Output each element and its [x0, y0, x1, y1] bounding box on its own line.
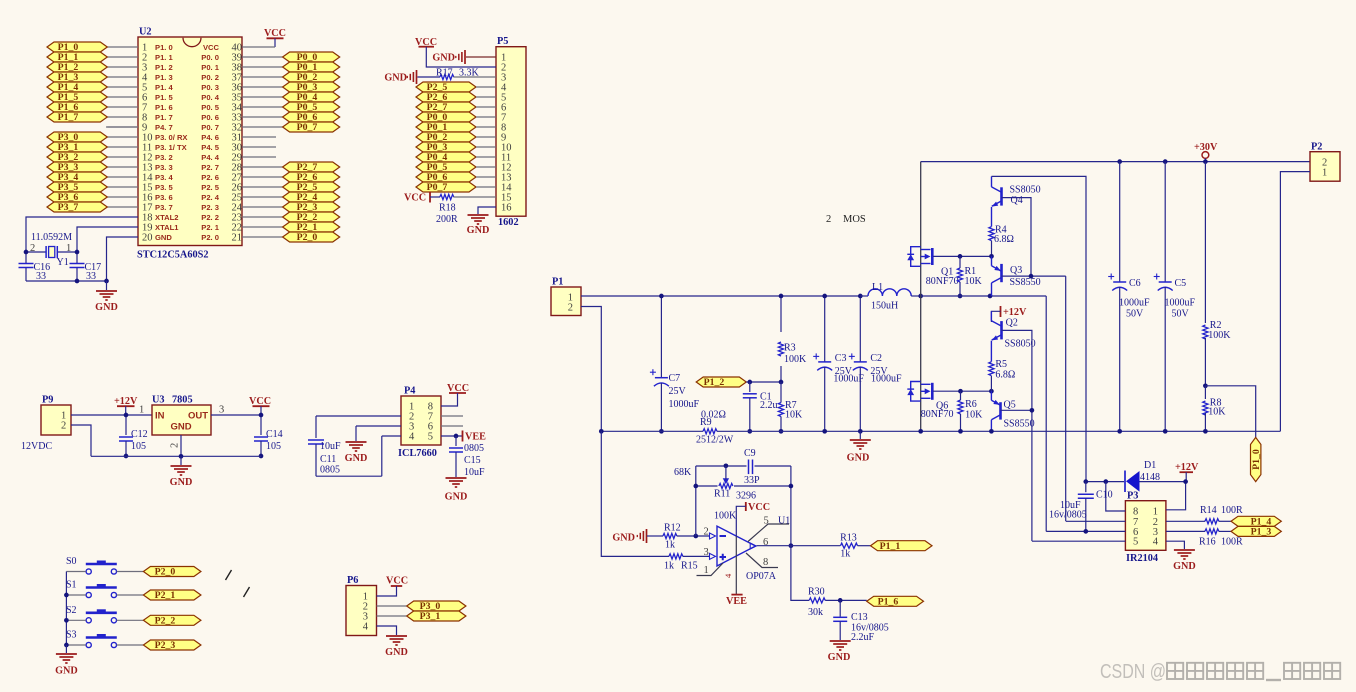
svg-text:P2_0: P2_0: [155, 567, 176, 578]
svg-text:GND: GND: [170, 422, 191, 433]
wire XTAL1 to crystal: [77, 227, 138, 252]
svg-text:2: 2: [61, 421, 66, 432]
svg-text:80NF70: 80NF70: [926, 276, 959, 287]
wire crystal bottom rail: [26, 280, 107, 282]
svg-text:4: 4: [1153, 537, 1159, 548]
svg-text:P2. 7: P2. 7: [201, 163, 219, 172]
svg-text:Y1: Y1: [57, 257, 69, 268]
svg-text:R16: R16: [1199, 537, 1216, 548]
wire S0 left: [66, 571, 85, 573]
svg-text:S3: S3: [66, 630, 77, 641]
ic P3 IR2104 box: [1125, 501, 1166, 551]
opamp negative supply stem: [735, 537, 737, 595]
capacitor C14 105: [260, 415, 262, 435]
svg-text:C15: C15: [464, 455, 481, 466]
svg-text:P1. 1: P1. 1: [155, 53, 174, 62]
svg-text:21: 21: [232, 233, 243, 244]
svg-text:P3_1: P3_1: [420, 611, 441, 622]
capacitor C7 1000uF 25V electrolytic: [660, 296, 662, 378]
svg-text:P2_3: P2_3: [155, 640, 176, 651]
svg-text:VCC: VCC: [386, 576, 408, 587]
wire U3 ground rail: [91, 455, 261, 457]
svg-text:30k: 30k: [808, 607, 823, 618]
svg-text:R5: R5: [995, 359, 1007, 370]
svg-text:OP07A: OP07A: [746, 571, 777, 582]
junction dot R30 C13: [838, 598, 843, 603]
svg-text:P2. 0: P2. 0: [201, 233, 219, 242]
connector P1 box: [551, 287, 581, 316]
svg-text:VEE: VEE: [465, 432, 486, 443]
svg-text:33: 33: [86, 271, 96, 282]
junction dots VB node: [1083, 479, 1088, 484]
svg-text:1000uF: 1000uF: [1165, 298, 1196, 309]
port P2_3: [143, 640, 201, 650]
resistor R30 30k: [809, 598, 825, 603]
mosfet Q6 80NF70: [907, 382, 932, 402]
svg-text:C13: C13: [851, 612, 868, 623]
wire HO bus down to IR2104 pin7: [1065, 276, 1067, 521]
svg-text:P1_7: P1_7: [58, 112, 79, 123]
junction dots at C14: [259, 413, 264, 418]
pin 5 stub: [748, 524, 789, 542]
capacitor C2 1000uF 25V electrolytic: [859, 296, 861, 362]
svg-text:P1. 3: P1. 3: [155, 73, 173, 82]
svg-text:100R: 100R: [1221, 537, 1243, 548]
svg-text:P2. 5: P2. 5: [201, 183, 220, 192]
svg-text:CSDN @: CSDN @: [1100, 661, 1166, 683]
svg-text:5: 5: [428, 432, 433, 443]
svg-text:SS8050: SS8050: [1010, 185, 1041, 196]
transistor Q3 SS8550: [992, 256, 1002, 296]
wire S3 left: [66, 644, 85, 646]
svg-text:P0. 3: P0. 3: [201, 83, 219, 92]
svg-text:2512/2W: 2512/2W: [696, 435, 734, 446]
svg-text:C11: C11: [320, 454, 336, 465]
wire Q1 gate line: [933, 255, 992, 257]
svg-text:1000uF: 1000uF: [871, 374, 902, 385]
resistor R6 10K: [960, 391, 962, 400]
ports P3_0..P3_7: [47, 132, 107, 213]
svg-text:3.3K: 3.3K: [459, 68, 480, 79]
svg-text:1k: 1k: [664, 561, 674, 572]
svg-text:R6: R6: [965, 399, 977, 410]
svg-text:P4. 4: P4. 4: [201, 153, 220, 162]
capacitor C5 1000uF 50V electrolytic: [1164, 162, 1166, 282]
svg-text:1602: 1602: [498, 217, 519, 228]
svg-text:Q5: Q5: [1004, 399, 1016, 410]
svg-text:VCC: VCC: [203, 43, 220, 52]
opamp U1 OP07A: [710, 526, 757, 566]
svg-text:GND: GND: [1173, 561, 1196, 572]
junction dots gate Q6: [958, 389, 963, 394]
svg-text:4: 4: [409, 432, 415, 443]
svg-text:GND: GND: [847, 453, 870, 464]
ports P2_7..P2_0: [283, 162, 340, 243]
svg-text:C14: C14: [266, 429, 283, 440]
mosfet Q1 80NF70: [907, 247, 932, 267]
capacitor C11 10uF 0805 with loop wires: [316, 415, 401, 417]
svg-text:50V: 50V: [1126, 309, 1144, 320]
svg-text:P9: P9: [42, 395, 53, 406]
regulator U3 7805 box: [152, 405, 211, 435]
port P2_1: [143, 590, 201, 600]
svg-text:P0. 7: P0. 7: [201, 123, 219, 132]
svg-text:P3. 7: P3. 7: [155, 203, 173, 212]
resistor R15 1k: [669, 554, 683, 559]
svg-text:1: 1: [66, 243, 71, 254]
svg-text:XTAL1: XTAL1: [155, 223, 179, 232]
wire Q3 base to HO bus: [1002, 275, 1066, 277]
wire IR2104 pin5 LO: [1032, 540, 1126, 542]
svg-text:100R: 100R: [1221, 505, 1243, 516]
svg-text:GND: GND: [55, 666, 78, 677]
ports at P5: P2_5 P2_6 P2_7 P0_0..P0_7: [416, 82, 496, 193]
svg-text:P0. 6: P0. 6: [201, 113, 219, 122]
wire switches common bus: [65, 572, 67, 646]
svg-text:R18: R18: [439, 203, 456, 214]
svg-text:C2: C2: [870, 353, 882, 364]
wire Q6 gate line: [933, 390, 991, 392]
wire +30V to Q1 drain through mosfet: [920, 162, 922, 296]
junction dot L1 right / switch node: [918, 294, 923, 299]
svg-text:C9: C9: [744, 448, 756, 459]
junction dot rail P1 pin2: [599, 429, 604, 434]
wire P5 pin2 to VCC: [426, 47, 496, 67]
svg-text:7805: 7805: [172, 395, 193, 406]
mcu U2 box: [138, 37, 242, 246]
mcu U2 pin numbers and names: [142, 43, 243, 244]
svg-text:L1: L1: [872, 282, 883, 293]
potentiometer R11 3296 100K: [719, 483, 733, 488]
svg-text:10K: 10K: [965, 276, 983, 287]
svg-text:P3. 4: P3. 4: [155, 173, 174, 182]
ground GND at P6 pin4: [377, 626, 397, 635]
svg-text:10K: 10K: [785, 410, 803, 421]
svg-text:P3. 0/ RX: P3. 0/ RX: [155, 133, 188, 142]
wire Q4 collector top to VB bus: [992, 176, 1087, 481]
wire input rail to L1: [661, 295, 860, 297]
svg-text:P2. 3: P2. 3: [201, 203, 219, 212]
svg-text:P4. 5: P4. 5: [201, 143, 220, 152]
wire P1 pin1 to input rail: [581, 295, 661, 297]
resistor R13 1k: [791, 545, 841, 547]
resistor R14 100R: [1166, 520, 1205, 522]
svg-text:R9: R9: [700, 417, 712, 428]
junction dot R2 R8: [1203, 383, 1208, 388]
svg-text:C3: C3: [835, 353, 847, 364]
wire IR2104 pin7 HO: [1066, 520, 1126, 522]
connector P2 box: [1310, 152, 1340, 182]
wire P5 pin1: [466, 56, 496, 58]
wire current sense to opamp input: [601, 431, 669, 556]
wire P9 pin2 to ground rail: [71, 425, 91, 456]
svg-text:1k: 1k: [840, 549, 850, 560]
svg-text:5: 5: [764, 516, 769, 527]
svg-text:VCC: VCC: [404, 193, 426, 204]
wire output down to R30: [791, 546, 809, 601]
svg-text:P3: P3: [1127, 490, 1138, 501]
svg-text:33P: 33P: [744, 475, 760, 486]
wire U3 out to VCC: [211, 414, 261, 416]
stray slash marks: [226, 570, 232, 580]
wire P4 pin7 stub: [441, 415, 463, 417]
svg-text:GND: GND: [445, 492, 468, 503]
svg-text:150uH: 150uH: [871, 301, 898, 312]
svg-text:80NF70: 80NF70: [921, 409, 954, 420]
svg-text:C7: C7: [669, 373, 681, 384]
junction dots C7: [659, 294, 664, 299]
svg-text:U2: U2: [139, 27, 152, 38]
svg-text:10uF: 10uF: [320, 441, 341, 452]
svg-text:P0_7: P0_7: [297, 122, 318, 133]
svg-text:IN: IN: [155, 411, 165, 422]
wires U2 left pin stubs: [107, 47, 138, 207]
svg-text:P2_2: P2_2: [155, 616, 176, 627]
capacitor C3 1000uF 25V electrolytic: [824, 296, 826, 362]
wire VB to IR2104 pin8: [1106, 482, 1126, 511]
wire P1 pin2 down: [581, 307, 601, 432]
svg-text:1: 1: [139, 405, 144, 416]
junction dots feedback: [693, 484, 698, 489]
switch S1 pushbutton: [86, 586, 117, 589]
svg-text:P2_1: P2_1: [155, 590, 176, 601]
svg-text:ICL7660: ICL7660: [398, 448, 437, 459]
capacitor C1 2.2u: [749, 382, 751, 392]
resistor R7 10K: [780, 382, 782, 403]
ic P4 ICL7660 box: [401, 396, 441, 445]
svg-text:Q2: Q2: [1006, 317, 1018, 328]
svg-text:105: 105: [266, 441, 281, 452]
svg-text:100K: 100K: [1208, 330, 1231, 341]
svg-text:P1. 2: P1. 2: [155, 63, 173, 72]
feedback loop wires: [695, 466, 697, 536]
svg-text:P1. 4: P1. 4: [155, 83, 174, 92]
svg-text:OUT: OUT: [188, 411, 208, 422]
capacitor C13 2.2uF 16v/0805: [839, 600, 841, 616]
port P3_0: [407, 601, 466, 611]
svg-text:U1: U1: [778, 516, 790, 527]
junction dots crystal: [24, 250, 29, 255]
svg-text:2.2uF: 2.2uF: [851, 632, 875, 643]
svg-text:1: 1: [1322, 167, 1327, 178]
svg-text:D1: D1: [1144, 460, 1156, 471]
svg-text:10K: 10K: [965, 410, 983, 421]
svg-text:P1_1: P1_1: [880, 541, 901, 552]
junction dot Q6 source at ground rail: [918, 429, 923, 434]
wire divider tap to P1_0: [1205, 386, 1255, 438]
svg-text:P1_0: P1_0: [1251, 449, 1262, 470]
svg-text:SS8050: SS8050: [1005, 339, 1036, 350]
junction dots gate Q1: [958, 254, 963, 259]
svg-text:P2. 6: P2. 6: [201, 173, 219, 182]
svg-text:16: 16: [501, 203, 512, 214]
ground GND crystal: [106, 281, 108, 290]
svg-text:12VDC: 12VDC: [21, 441, 52, 452]
svg-text:C12: C12: [131, 429, 148, 440]
svg-text:GND: GND: [345, 453, 368, 464]
wire S2 left: [66, 619, 85, 621]
svg-text:P3. 5: P3. 5: [155, 183, 174, 192]
svg-text:R11: R11: [714, 489, 730, 500]
svg-text:P3. 1/ TX: P3. 1/ TX: [155, 143, 187, 152]
svg-text:C5: C5: [1175, 278, 1187, 289]
wire switch node rail: [921, 295, 1046, 297]
svg-text:2.2u: 2.2u: [760, 400, 778, 411]
ports P1_0..P1_7: [47, 42, 107, 123]
svg-text:R14: R14: [1200, 505, 1217, 516]
junction dots R3: [779, 294, 784, 299]
capacitor C6 1000uF 50V electrolytic: [1119, 162, 1121, 282]
svg-text:P1. 5: P1. 5: [155, 93, 174, 102]
svg-text:2: 2: [826, 214, 831, 225]
svg-text:S1: S1: [66, 580, 77, 591]
power VCC at opamp: [745, 502, 747, 511]
svg-text:GND: GND: [384, 73, 407, 84]
svg-text:GND: GND: [155, 233, 172, 242]
ground GND below C13: [830, 640, 851, 642]
svg-text:4148: 4148: [1140, 472, 1160, 483]
wire P1_2 to divider: [746, 381, 781, 383]
svg-text:8: 8: [763, 557, 768, 568]
svg-text:0805: 0805: [320, 465, 340, 476]
svg-text:2: 2: [30, 243, 35, 254]
svg-text:Q4: Q4: [1011, 195, 1023, 206]
svg-text:R15: R15: [681, 561, 698, 572]
svg-text:P3_7: P3_7: [58, 202, 79, 213]
svg-text:16v/0805: 16v/0805: [1049, 510, 1087, 521]
svg-text:R12: R12: [664, 523, 681, 534]
port P1_0 vertical: [1251, 437, 1261, 481]
svg-text:R17: R17: [436, 68, 453, 79]
svg-text:0805: 0805: [464, 443, 484, 454]
svg-text:P3. 2: P3. 2: [155, 153, 173, 162]
svg-text:VCC: VCC: [264, 28, 286, 39]
svg-text:P1: P1: [552, 277, 563, 288]
junction dot gate node high side: [989, 254, 994, 259]
resistor R3 100K: [780, 296, 782, 332]
svg-text:50V: 50V: [1172, 309, 1190, 320]
wire Q5 base: [1001, 409, 1032, 411]
switch S0 pushbutton: [86, 563, 117, 566]
wire S0 right to port: [117, 571, 144, 573]
svg-text:6.8Ω: 6.8Ω: [994, 234, 1014, 245]
svg-text:P1. 6: P1. 6: [155, 103, 173, 112]
switch S3 pushbutton: [86, 636, 117, 639]
svg-text:P1_3: P1_3: [1251, 527, 1272, 538]
svg-text:U3: U3: [152, 395, 165, 406]
svg-text:P0. 4: P0. 4: [201, 93, 220, 102]
svg-text:VEE: VEE: [726, 596, 747, 607]
svg-text:P2_0: P2_0: [297, 232, 318, 243]
wire S2 right to port: [117, 619, 144, 621]
port P3_1: [407, 611, 466, 621]
svg-text:P5: P5: [497, 36, 508, 47]
svg-text:VCC: VCC: [748, 502, 770, 513]
svg-text:GND: GND: [612, 533, 635, 544]
transistor Q2 SS8050: [991, 311, 1001, 361]
wire S1 right to port: [117, 594, 144, 596]
ground GND below C15: [446, 477, 467, 479]
svg-text:20: 20: [142, 233, 153, 244]
svg-text:33: 33: [36, 271, 46, 282]
wire opamp output: [757, 545, 791, 547]
capacitor C17: [76, 252, 78, 263]
junction dots switch bus: [64, 593, 69, 598]
connector P5 pin numbers: [501, 53, 512, 214]
wire P4 pin6 stub: [441, 425, 463, 427]
port P2_2: [143, 615, 201, 625]
ground GND switches: [65, 645, 67, 653]
svg-text:1000uF: 1000uF: [669, 399, 700, 410]
svg-text:GND: GND: [432, 53, 455, 64]
svg-text:R30: R30: [808, 587, 825, 598]
svg-text:5: 5: [1133, 537, 1138, 548]
svg-text:S2: S2: [66, 605, 77, 616]
svg-text:3: 3: [704, 547, 709, 558]
ground GND at P5 pin16: [478, 207, 496, 214]
port P2_0: [143, 567, 201, 577]
svg-text:P0. 1: P0. 1: [201, 63, 220, 72]
svg-text:68K: 68K: [674, 467, 692, 478]
wire P4 pin5 to VEE: [441, 435, 462, 437]
svg-text:P0. 2: P0. 2: [201, 73, 219, 82]
wire Q4 base to HO bus upper: [1002, 198, 1032, 277]
wire P6 pin3: [377, 615, 407, 617]
svg-text:100K: 100K: [784, 354, 807, 365]
svg-text:S0: S0: [66, 556, 77, 567]
svg-text:3: 3: [219, 405, 224, 416]
svg-text:2: 2: [568, 302, 573, 313]
wire XTAL2 to crystal: [26, 217, 138, 252]
connector P9 box: [41, 405, 71, 435]
resistor R12 1k: [647, 535, 663, 537]
capacitor C16: [25, 252, 27, 263]
wire U2 pin9 stub: [106, 126, 138, 128]
port P1_1: [871, 541, 933, 551]
svg-text:2: 2: [170, 443, 181, 448]
wire P2 pin1 down to rail: [1280, 172, 1310, 432]
svg-text:10uF: 10uF: [464, 467, 485, 478]
crystal Y1: [26, 251, 46, 253]
svg-text:3296: 3296: [736, 491, 756, 502]
power VEE at P4 pin5: [462, 431, 464, 442]
svg-text:P6: P6: [347, 575, 358, 586]
svg-text:P0. 5: P0. 5: [201, 103, 220, 112]
ground GND at U3: [180, 456, 182, 465]
svg-text:P4. 7: P4. 7: [155, 123, 173, 132]
svg-text:IR2104: IR2104: [1126, 553, 1158, 564]
resistor R2 100K: [1204, 162, 1206, 323]
wire U2 GND pin down: [107, 237, 139, 281]
svg-text:GND: GND: [385, 647, 408, 658]
svg-text:GND: GND: [828, 652, 851, 663]
svg-text:P4. 6: P4. 6: [201, 133, 219, 142]
svg-text:P1. 0: P1. 0: [155, 43, 173, 52]
transistor Q4 SS8050: [992, 176, 1002, 226]
resistor R8 10K: [1204, 386, 1206, 399]
svg-text:C6: C6: [1129, 278, 1141, 289]
wires U2 right pin stubs: [242, 57, 283, 237]
inductor L1 150uH: [860, 295, 868, 297]
svg-text:6.8Ω: 6.8Ω: [995, 369, 1015, 380]
wire U2 pin40 to VCC: [242, 46, 275, 48]
svg-text:GND: GND: [170, 477, 193, 488]
wire VS bus down to IR2104 pin6: [1045, 296, 1047, 531]
svg-text:25V: 25V: [669, 386, 687, 397]
resistor R9 0.02ohm 2512/2W shunt: [601, 430, 703, 432]
port P1_6: [867, 596, 924, 606]
wire IR2104 pin6 VS: [1046, 530, 1125, 532]
